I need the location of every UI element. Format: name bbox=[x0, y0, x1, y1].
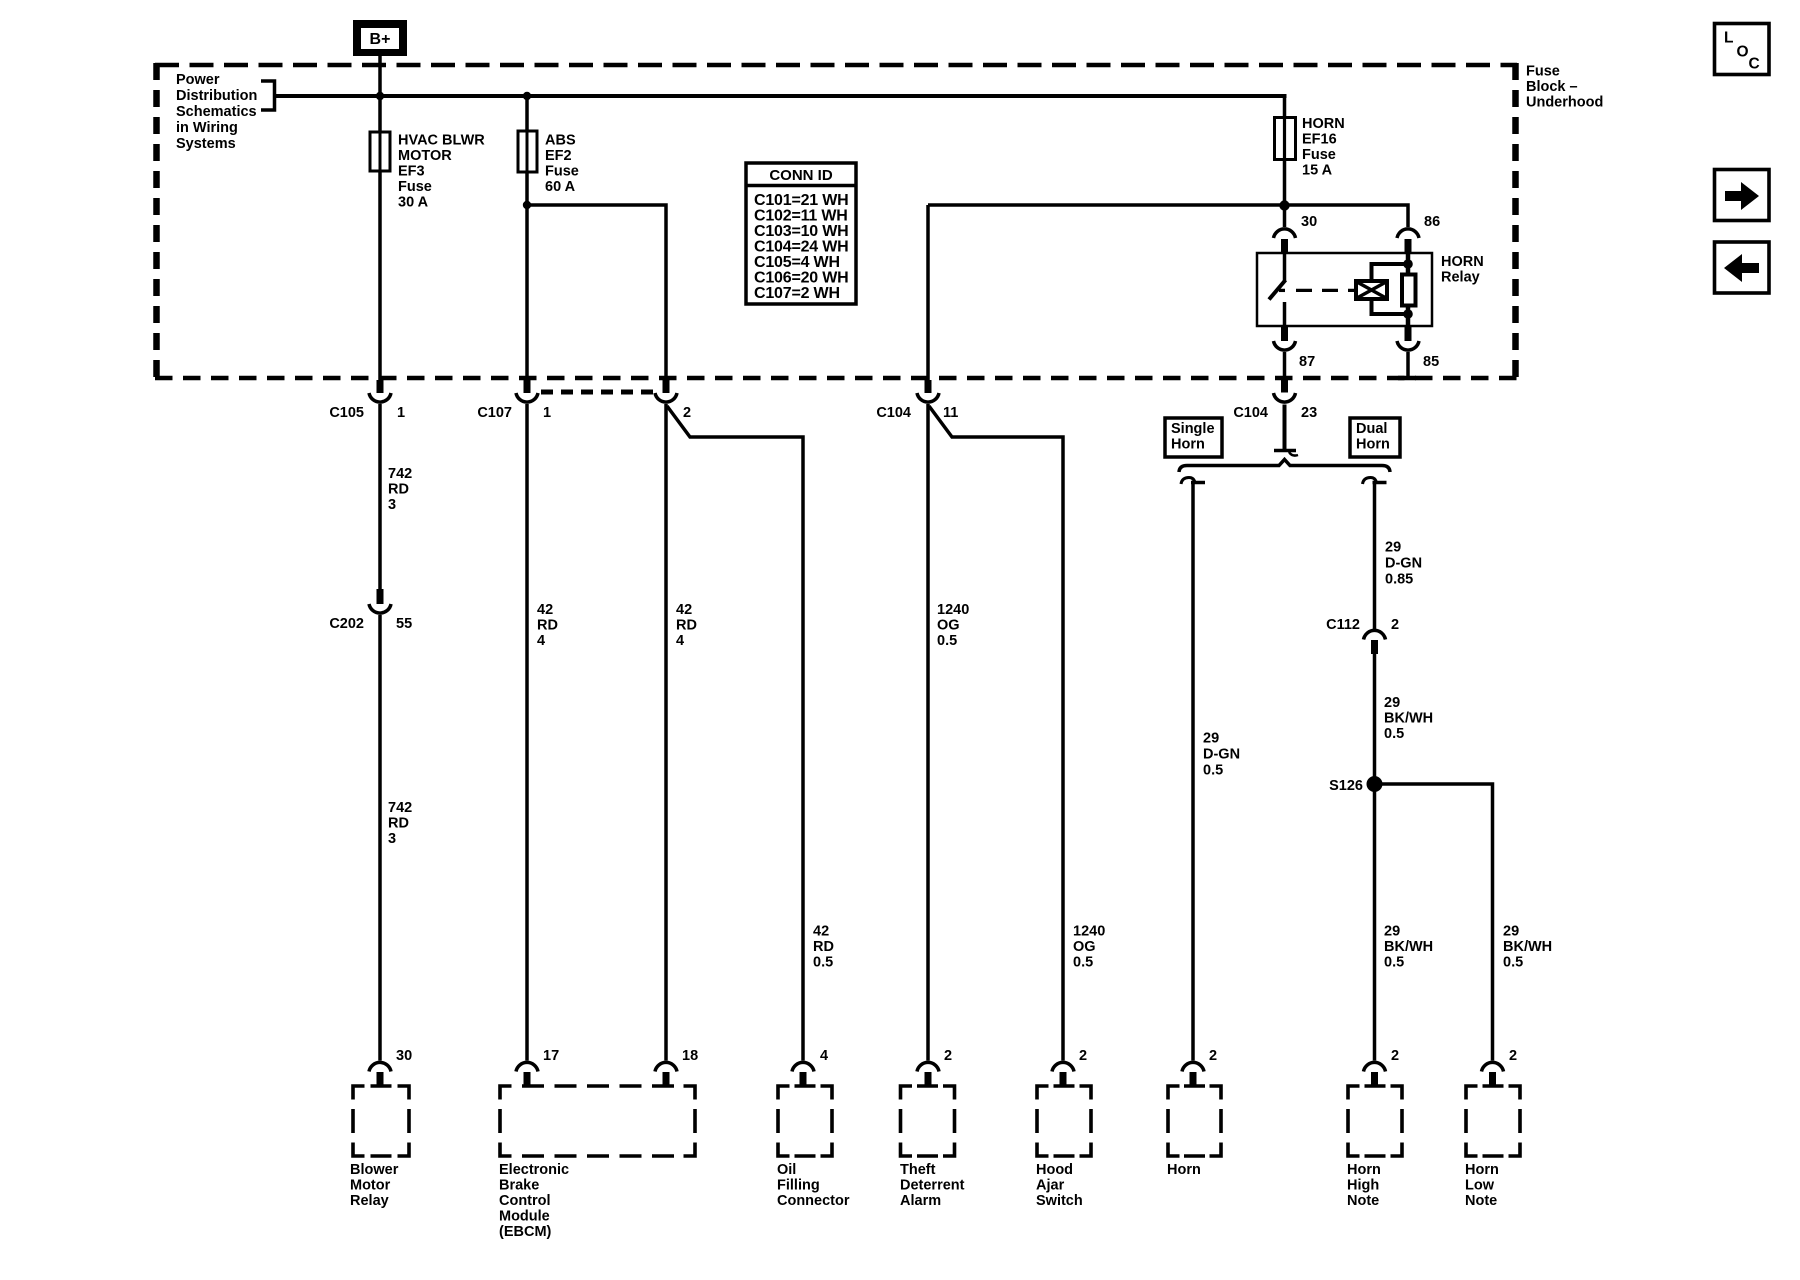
node B+ battery feed box bbox=[353, 20, 407, 56]
connector dual horn branch bbox=[1363, 478, 1387, 485]
svg-text:742: 742 bbox=[388, 800, 412, 816]
svg-text:42: 42 bbox=[813, 924, 829, 940]
connector C104 pin 11 bbox=[876, 380, 958, 421]
node splice S126 bbox=[1367, 776, 1383, 792]
svg-text:1240: 1240 bbox=[937, 602, 969, 618]
svg-text:RD: RD bbox=[676, 618, 697, 634]
svg-text:1: 1 bbox=[397, 405, 405, 421]
svg-text:30: 30 bbox=[1301, 214, 1317, 230]
fuse EF3 HVAC BLWR MOTOR 30A bbox=[370, 132, 390, 171]
svg-text:Theft: Theft bbox=[900, 1162, 936, 1178]
svg-text:29: 29 bbox=[1203, 731, 1219, 747]
svg-text:Switch: Switch bbox=[1036, 1193, 1083, 1209]
wire ABS fuse feed down from bus to C107 pin1 bbox=[525, 96, 529, 381]
svg-text:Filling: Filling bbox=[777, 1178, 820, 1194]
svg-text:2: 2 bbox=[944, 1048, 952, 1064]
label box Dual Horn bbox=[1350, 418, 1400, 457]
label ABS EF2 Fuse 60 A bbox=[545, 133, 579, 196]
wire dashed tie C107 pin1 to pin2 bbox=[541, 390, 654, 395]
wire B+ to bus bbox=[378, 56, 382, 98]
svg-text:0.5: 0.5 bbox=[1384, 955, 1404, 971]
svg-text:Systems: Systems bbox=[176, 136, 236, 152]
wire 29 BK/WH 0.5 C112 to S126 bbox=[1373, 653, 1377, 784]
table CONN ID bbox=[746, 163, 856, 304]
wire branch 42 RD 0.5 to oil filling connector bbox=[667, 406, 803, 1061]
svg-text:RD: RD bbox=[388, 816, 409, 832]
connector EBCM pin 18 bbox=[655, 1048, 698, 1087]
label 29 BK/WH 0.5 upper bbox=[1384, 695, 1433, 742]
svg-text:17: 17 bbox=[543, 1048, 559, 1064]
svg-text:Fuse: Fuse bbox=[1302, 147, 1336, 163]
svg-text:2: 2 bbox=[1509, 1048, 1517, 1064]
connector hood ajar switch pin 2 bbox=[1052, 1048, 1087, 1087]
component box Electronic Brake Control Module EBCM bbox=[499, 1086, 695, 1240]
svg-text:29: 29 bbox=[1384, 924, 1400, 940]
node junction dot coil/resistor bottom bbox=[1403, 309, 1413, 319]
wire pin 86 through resistor bbox=[1406, 253, 1411, 274]
svg-text:EF3: EF3 bbox=[398, 164, 425, 180]
wire HVAC fuse feed down from bus to C105 bbox=[378, 96, 382, 381]
label Fuse Block - Underhood bbox=[1526, 64, 1603, 111]
svg-text:0.85: 0.85 bbox=[1385, 572, 1413, 588]
svg-text:C101=21 WH: C101=21 WH bbox=[754, 192, 849, 209]
svg-text:HVAC BLWR: HVAC BLWR bbox=[398, 133, 485, 149]
wire pin 87 down to C104 bbox=[1283, 352, 1287, 382]
svg-text:0.5: 0.5 bbox=[1384, 726, 1404, 742]
component box Theft Deterrent Alarm bbox=[900, 1086, 965, 1209]
svg-text:Block –: Block – bbox=[1526, 79, 1578, 95]
label 742 RD 3 lower bbox=[388, 800, 412, 847]
connector C105 pin 1 bbox=[329, 380, 405, 421]
svg-text:C104: C104 bbox=[1233, 405, 1268, 421]
component box Horn Low Note bbox=[1465, 1086, 1520, 1209]
relay HORN Relay box bbox=[1257, 253, 1432, 326]
svg-text:2: 2 bbox=[1391, 1048, 1399, 1064]
svg-text:RD: RD bbox=[388, 482, 409, 498]
svg-text:C202: C202 bbox=[329, 616, 364, 632]
svg-text:Deterrent: Deterrent bbox=[900, 1178, 965, 1194]
svg-text:1240: 1240 bbox=[1073, 924, 1105, 940]
wire 1240 OG 0.5 C104 pin11 to theft deterrent alarm bbox=[926, 404, 930, 1061]
svg-text:86: 86 bbox=[1424, 214, 1440, 230]
svg-text:RD: RD bbox=[813, 939, 834, 955]
node junction dot coil/resistor top bbox=[1403, 259, 1413, 269]
svg-text:C107=2 WH: C107=2 WH bbox=[754, 285, 840, 302]
svg-text:B+: B+ bbox=[370, 31, 391, 48]
svg-text:Horn: Horn bbox=[1347, 1162, 1381, 1178]
svg-text:S126: S126 bbox=[1329, 778, 1363, 794]
node junction dot bus / HVAC fuse bbox=[376, 92, 384, 100]
svg-text:Horn: Horn bbox=[1356, 437, 1390, 453]
connector theft deterrent alarm pin 2 bbox=[917, 1048, 952, 1087]
connector C107 pin 2 bbox=[655, 380, 691, 421]
component box Oil Filling Connector bbox=[777, 1086, 850, 1209]
wire relay coil control line to C104 pin11 bbox=[928, 205, 1408, 227]
svg-text:0.5: 0.5 bbox=[813, 955, 833, 971]
svg-text:BK/WH: BK/WH bbox=[1503, 939, 1552, 955]
svg-text:C112: C112 bbox=[1326, 617, 1360, 633]
relay switch contact from pin 30 bbox=[1269, 253, 1286, 326]
svg-text:Control: Control bbox=[499, 1193, 551, 1209]
svg-text:Note: Note bbox=[1465, 1193, 1497, 1209]
relay coil crossed box bbox=[1356, 281, 1387, 299]
svg-text:Oil: Oil bbox=[777, 1162, 796, 1178]
label HORN Relay bbox=[1441, 254, 1484, 286]
svg-text:742: 742 bbox=[388, 466, 412, 482]
svg-text:29: 29 bbox=[1503, 924, 1519, 940]
svg-text:Schematics: Schematics bbox=[176, 104, 257, 120]
svg-text:Module: Module bbox=[499, 1209, 550, 1225]
svg-text:42: 42 bbox=[676, 602, 692, 618]
svg-text:C: C bbox=[1749, 56, 1760, 73]
svg-text:BK/WH: BK/WH bbox=[1384, 711, 1433, 727]
fuse EF16 HORN 15A bbox=[1275, 118, 1296, 160]
wire S126 to horn high note bbox=[1373, 784, 1377, 1061]
svg-text:11: 11 bbox=[943, 405, 958, 421]
node junction dot ABS fuse branch bbox=[523, 201, 531, 209]
svg-text:CONN ID: CONN ID bbox=[769, 167, 833, 184]
svg-text:C105=4 WH: C105=4 WH bbox=[754, 254, 840, 271]
label 29 D-GN 0.85 bbox=[1385, 540, 1422, 588]
svg-text:4: 4 bbox=[537, 633, 545, 649]
bracket from label to bus bbox=[261, 81, 275, 110]
svg-text:C104=24 WH: C104=24 WH bbox=[754, 239, 849, 256]
svg-text:0.5: 0.5 bbox=[1203, 763, 1223, 779]
label 29 BK/WH 0.5 high note bbox=[1384, 924, 1433, 971]
brace horn circuit split bbox=[1179, 460, 1390, 473]
connector single horn branch bbox=[1181, 478, 1205, 485]
svg-text:RD: RD bbox=[537, 618, 558, 634]
icon LOC button bbox=[1715, 24, 1770, 75]
svg-text:D-GN: D-GN bbox=[1203, 747, 1240, 763]
svg-text:Horn: Horn bbox=[1167, 1162, 1201, 1178]
label HVAC BLWR MOTOR EF3 Fuse 30 A bbox=[398, 133, 485, 211]
svg-text:Relay: Relay bbox=[1441, 270, 1480, 286]
svg-text:C104: C104 bbox=[876, 405, 911, 421]
label 1240 OG 0.5 bbox=[937, 602, 969, 649]
component box Hood Ajar Switch bbox=[1036, 1086, 1091, 1209]
node junction dot horn fuse / control line bbox=[1279, 200, 1289, 210]
wire ABS branch to C107 pin2 bbox=[527, 205, 666, 381]
label 42 RD 0.5 bbox=[813, 924, 834, 971]
resistor relay suppression bbox=[1402, 275, 1416, 306]
label 742 RD 3 bbox=[388, 466, 412, 513]
svg-text:3: 3 bbox=[388, 497, 396, 513]
svg-text:OG: OG bbox=[937, 618, 960, 634]
svg-text:4: 4 bbox=[676, 633, 684, 649]
svg-text:18: 18 bbox=[682, 1048, 698, 1064]
svg-text:C106=20 WH: C106=20 WH bbox=[754, 270, 849, 287]
svg-text:Fuse: Fuse bbox=[1526, 64, 1560, 80]
svg-text:29: 29 bbox=[1384, 695, 1400, 711]
svg-text:0.5: 0.5 bbox=[1073, 955, 1093, 971]
icon back arrow button bbox=[1715, 242, 1770, 293]
connector horn low note pin 2 bbox=[1482, 1048, 1518, 1087]
relay actuation dashed line bbox=[1296, 289, 1356, 292]
svg-text:Note: Note bbox=[1347, 1193, 1379, 1209]
svg-text:O: O bbox=[1737, 44, 1749, 61]
svg-text:Single: Single bbox=[1171, 421, 1215, 437]
component box Blower Motor Relay bbox=[350, 1086, 409, 1209]
wire C104 pin23 stub with end bar bbox=[1283, 405, 1287, 451]
svg-text:0.5: 0.5 bbox=[1503, 955, 1523, 971]
svg-text:2: 2 bbox=[683, 405, 691, 421]
wire 42 RD 4 C107 pin2 to EBCM pin18 bbox=[664, 404, 668, 1061]
svg-text:Connector: Connector bbox=[777, 1193, 850, 1209]
svg-text:2: 2 bbox=[1079, 1048, 1087, 1064]
label 29 D-GN 0.5 bbox=[1203, 731, 1240, 779]
svg-text:Horn: Horn bbox=[1171, 437, 1205, 453]
label 29 BK/WH 0.5 low note bbox=[1503, 924, 1552, 971]
wire HORN fuse feed down from bus bbox=[1283, 96, 1287, 227]
svg-text:C103=10 WH: C103=10 WH bbox=[754, 223, 849, 240]
svg-text:Brake: Brake bbox=[499, 1178, 539, 1194]
svg-text:87: 87 bbox=[1299, 354, 1315, 370]
label HORN EF16 Fuse 15 A bbox=[1302, 116, 1345, 179]
svg-text:60 A: 60 A bbox=[545, 179, 576, 195]
svg-text:Motor: Motor bbox=[350, 1178, 391, 1194]
relay pin 87 connector bbox=[1274, 326, 1316, 370]
relay pin 30 connector bbox=[1274, 214, 1318, 254]
svg-text:Blower: Blower bbox=[350, 1162, 399, 1178]
svg-text:30: 30 bbox=[396, 1048, 412, 1064]
svg-text:C105: C105 bbox=[329, 405, 364, 421]
svg-text:2: 2 bbox=[1391, 617, 1399, 633]
svg-text:Underhood: Underhood bbox=[1526, 95, 1603, 111]
svg-text:EF16: EF16 bbox=[1302, 132, 1337, 148]
wire 29 D-GN 0.5 to horn bbox=[1191, 483, 1195, 1061]
svg-text:Fuse: Fuse bbox=[398, 179, 432, 195]
label Power Distribution Schematics in Wiring Systems bbox=[176, 72, 257, 152]
wire 742 RD 3 C105 to C202 bbox=[378, 404, 382, 590]
svg-text:Alarm: Alarm bbox=[900, 1193, 941, 1209]
connector EBCM pin 17 bbox=[516, 1048, 559, 1087]
svg-text:Hood: Hood bbox=[1036, 1162, 1073, 1178]
svg-text:23: 23 bbox=[1301, 405, 1317, 421]
svg-text:HORN: HORN bbox=[1302, 116, 1345, 132]
wire branch 1240 OG 0.5 to hood ajar switch bbox=[929, 406, 1063, 1061]
component box Horn High Note bbox=[1347, 1086, 1402, 1209]
connector C104 pin 23 bbox=[1233, 379, 1317, 421]
connector C202 pin 55 bbox=[329, 589, 412, 632]
svg-text:Distribution: Distribution bbox=[176, 88, 257, 104]
svg-text:Ajar: Ajar bbox=[1036, 1178, 1065, 1194]
wire 42 RD 4 C107 pin1 to EBCM pin17 bbox=[525, 404, 529, 1061]
svg-text:OG: OG bbox=[1073, 939, 1096, 955]
svg-text:Relay: Relay bbox=[350, 1193, 389, 1209]
svg-text:Electronic: Electronic bbox=[499, 1162, 569, 1178]
svg-text:Fuse: Fuse bbox=[545, 164, 579, 180]
svg-text:85: 85 bbox=[1423, 354, 1439, 370]
svg-text:BK/WH: BK/WH bbox=[1384, 939, 1433, 955]
icon next arrow button bbox=[1715, 170, 1770, 221]
node junction dot bus / ABS fuse bbox=[523, 92, 531, 100]
wire main B+ bus bbox=[275, 94, 1287, 98]
svg-text:55: 55 bbox=[396, 616, 412, 632]
svg-text:0.5: 0.5 bbox=[937, 633, 957, 649]
wire pin 85 to fuse block border bbox=[1406, 352, 1410, 378]
label box Single Horn bbox=[1165, 418, 1222, 457]
connector horn high note pin 2 bbox=[1364, 1048, 1400, 1087]
svg-text:L: L bbox=[1724, 30, 1733, 47]
svg-text:15 A: 15 A bbox=[1302, 163, 1333, 179]
relay pin 85 connector bbox=[1397, 326, 1439, 370]
fuse EF2 ABS 60A bbox=[518, 131, 537, 172]
wire 29 D-GN 0.85 to C112 bbox=[1373, 483, 1377, 629]
svg-text:Horn: Horn bbox=[1465, 1162, 1499, 1178]
svg-text:Low: Low bbox=[1465, 1178, 1495, 1194]
connector C107 pin 1 bbox=[477, 380, 551, 421]
svg-text:30 A: 30 A bbox=[398, 195, 429, 211]
fuse block underhood dashed border bbox=[155, 63, 1517, 67]
wire 742 RD 3 C202 to blower motor relay bbox=[378, 615, 382, 1061]
svg-text:3: 3 bbox=[388, 831, 396, 847]
connector oil filling connector pin 4 bbox=[792, 1048, 828, 1087]
svg-text:29: 29 bbox=[1385, 540, 1401, 556]
connector blower motor relay pin 30 bbox=[369, 1048, 412, 1087]
svg-text:HORN: HORN bbox=[1441, 254, 1484, 270]
svg-text:Power: Power bbox=[176, 72, 220, 88]
svg-text:4: 4 bbox=[820, 1048, 828, 1064]
wire coil to pin 86 branch bbox=[1372, 264, 1409, 281]
svg-text:42: 42 bbox=[537, 602, 553, 618]
connector C112 pin 2 bbox=[1326, 617, 1399, 654]
svg-text:MOTOR: MOTOR bbox=[398, 148, 452, 164]
connector horn pin 2 bbox=[1182, 1048, 1217, 1087]
svg-text:2: 2 bbox=[1209, 1048, 1217, 1064]
svg-text:C107: C107 bbox=[477, 405, 512, 421]
svg-text:C102=11 WH: C102=11 WH bbox=[754, 208, 848, 225]
svg-text:1: 1 bbox=[543, 405, 551, 421]
svg-text:(EBCM): (EBCM) bbox=[499, 1224, 552, 1240]
label 42 RD 4 right bbox=[676, 602, 697, 649]
component box Horn bbox=[1167, 1086, 1221, 1178]
label 42 RD 4 left bbox=[537, 602, 558, 649]
relay pin 86 connector bbox=[1397, 214, 1440, 254]
svg-text:EF2: EF2 bbox=[545, 148, 572, 164]
svg-text:High: High bbox=[1347, 1178, 1379, 1194]
svg-text:D-GN: D-GN bbox=[1385, 556, 1422, 572]
svg-text:ABS: ABS bbox=[545, 133, 576, 149]
wire S126 branch to horn low note bbox=[1375, 784, 1493, 1061]
label 1240 OG 0.5 hood bbox=[1073, 924, 1105, 971]
svg-text:in Wiring: in Wiring bbox=[176, 120, 238, 136]
svg-text:Dual: Dual bbox=[1356, 421, 1387, 437]
